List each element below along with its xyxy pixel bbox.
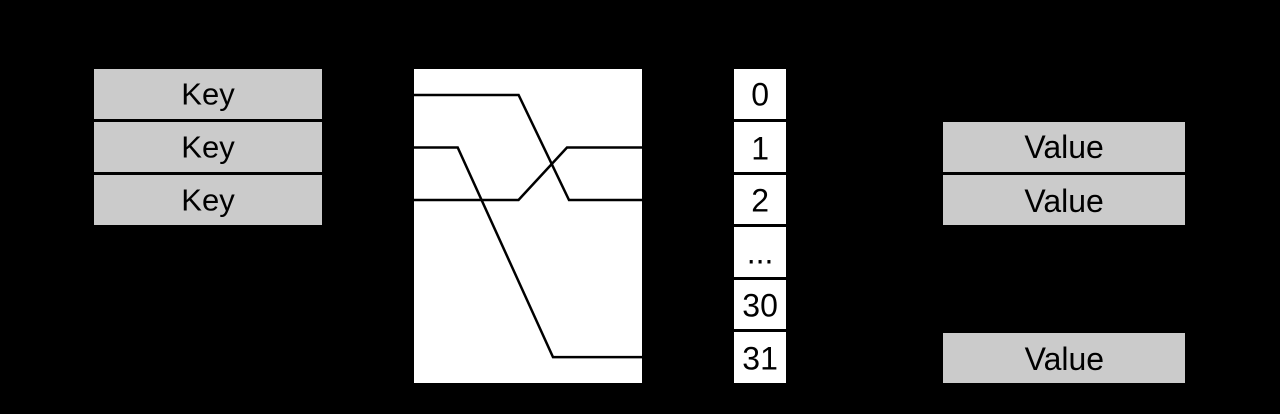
wire key3 to slot 1	[414, 147, 642, 200]
slot ellipsis	[734, 229, 786, 278]
divider	[734, 277, 786, 280]
wire key2 to slot 31	[414, 147, 642, 357]
hash function white box	[414, 69, 642, 384]
key row 2	[94, 123, 322, 172]
slot 31	[734, 334, 786, 385]
divider line 1	[94, 119, 322, 122]
key row 1	[94, 69, 322, 120]
key stack container	[94, 69, 322, 225]
slot 2	[734, 176, 786, 226]
divider	[734, 119, 786, 122]
value box 3	[943, 333, 1185, 383]
index column	[734, 69, 786, 384]
value row 1	[943, 123, 1184, 173]
wire key1 to slot 2	[414, 95, 642, 200]
slot 1	[734, 124, 786, 173]
divider	[943, 172, 1184, 175]
value row 3	[943, 334, 1185, 384]
key row 3	[94, 175, 322, 225]
value row 2	[943, 176, 1184, 226]
divider	[734, 329, 786, 332]
divider	[734, 172, 786, 175]
value boxes 1 and 2	[943, 122, 1184, 225]
slot 0	[734, 70, 786, 121]
divider line 2	[94, 172, 322, 175]
slot 30	[734, 281, 786, 330]
divider	[734, 224, 786, 227]
